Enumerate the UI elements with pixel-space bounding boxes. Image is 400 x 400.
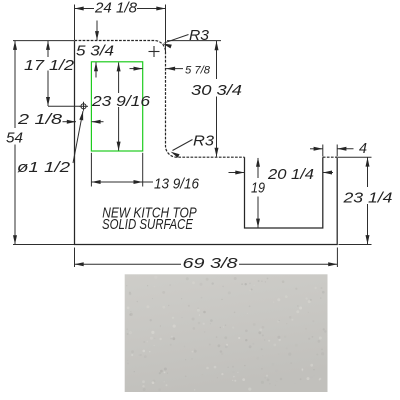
countertop outline: dashed wall edges with R3 corners — [75, 41, 338, 158]
dimension 5 3/4 (edge to sink cutout) — [96, 21, 97, 78]
radius callout R3 (top corner) — [165, 35, 189, 43]
svg-text:23 1/4: 23 1/4 — [342, 190, 392, 207]
dimension 23 1/4 (right side height) — [338, 157, 372, 244]
R3 corner center mark — [149, 46, 160, 57]
dimension 2 1/8 (hole offset) — [63, 121, 104, 123]
svg-text:30 3/4: 30 3/4 — [191, 82, 242, 99]
svg-text:54: 54 — [6, 130, 23, 147]
svg-text:17 1/2: 17 1/2 — [24, 57, 75, 74]
dimension 23 9/16 (sink cutout height) — [118, 63, 120, 151]
dimension 13 9/16 (sink cutout width) — [91, 153, 153, 187]
svg-text:5 3/4: 5 3/4 — [76, 43, 114, 60]
svg-text:13 9/16: 13 9/16 — [154, 176, 200, 193]
svg-text:69 3/8: 69 3/8 — [183, 255, 239, 272]
countertop outline: solid edges and range notch — [75, 41, 338, 245]
dimension 69 3/8 (overall width) — [75, 248, 338, 268]
svg-text:ø1 1/2: ø1 1/2 — [17, 159, 71, 176]
faucet hole — [79, 102, 88, 111]
svg-text:R3: R3 — [189, 27, 210, 44]
svg-text:4: 4 — [359, 140, 367, 157]
dimension 30 3/4 (notch height) — [167, 41, 221, 157]
dimension 19 (range notch depth) — [257, 158, 259, 228]
dimension 5 7/8 (cutout to wall edge) — [130, 68, 184, 70]
material swatch — [125, 274, 328, 392]
svg-text:2 1/8: 2 1/8 — [17, 111, 63, 128]
dimension 17 1/2 (edge to faucet hole) — [13, 41, 80, 107]
svg-text:20 1/4: 20 1/4 — [267, 166, 314, 183]
dimension 4 (right strip width) — [310, 145, 354, 157]
dimension 24 1/8 (top width) — [75, 5, 166, 53]
svg-text:24 1/8: 24 1/8 — [94, 0, 138, 17]
sink cutout rectangle (green) — [91, 62, 142, 151]
svg-text:23 9/16: 23 9/16 — [91, 93, 151, 110]
svg-text:19: 19 — [251, 180, 266, 197]
svg-text:R3: R3 — [193, 133, 215, 150]
svg-text:5 7/8: 5 7/8 — [185, 65, 210, 77]
dimension dia 1 1/2 (faucet hole) leader — [73, 111, 83, 163]
dimension 54 (overall height) — [13, 41, 74, 245]
svg-text:SOLID SURFACE: SOLID SURFACE — [102, 216, 194, 233]
dimension 20 1/4 (range notch width) — [229, 172, 334, 174]
radius callout R3 (lower corner) — [173, 140, 193, 151]
